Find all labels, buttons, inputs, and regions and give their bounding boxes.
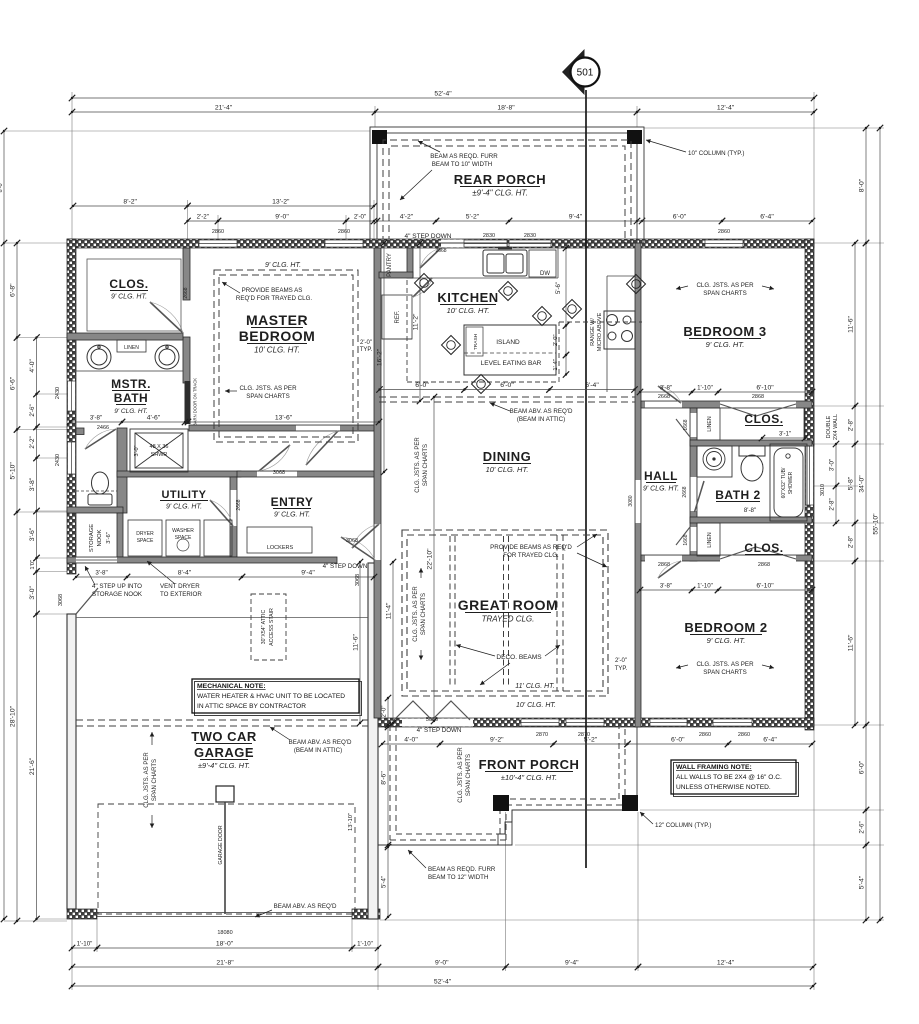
dim 6-6 left [10, 334, 21, 432]
svg-text:48 X 36: 48 X 36 [150, 444, 169, 450]
svg-text:TRASH: TRASH [473, 333, 479, 350]
svg-text:4'-2": 4'-2" [400, 214, 414, 221]
opening linen2 door [691, 527, 697, 551]
linen1 cabinet [697, 408, 720, 440]
svg-text:3'-8": 3'-8" [29, 477, 36, 491]
svg-text:6'-0": 6'-0" [673, 214, 687, 221]
door kitchen rear [420, 248, 441, 268]
ext line top x375 [374, 106, 376, 127]
ext line left y243 far [4, 242, 17, 244]
garage floor step line [76, 617, 368, 619]
closet shelf outline [87, 259, 181, 331]
svg-text:3'-8": 3'-8" [660, 583, 672, 590]
window 2830 kitchen a [464, 240, 507, 247]
svg-text:21'-6": 21'-6" [29, 757, 36, 775]
mechanical note box [192, 679, 362, 716]
svg-text:HALL: HALL [644, 469, 678, 483]
fridge box [382, 295, 412, 339]
svg-text:9' CLG. HT.: 9' CLG. HT. [166, 504, 202, 511]
arrow beam abv garage s [255, 910, 272, 917]
island bar dashed [464, 352, 556, 354]
arrow 10 column [646, 139, 686, 152]
svg-text:6'-6": 6'-6" [10, 376, 17, 390]
dim 11-6 right bed2 [848, 558, 859, 728]
svg-text:2'-2": 2'-2" [197, 214, 209, 221]
ext line bottom x505 [505, 812, 507, 971]
svg-text:CLG. JSTS. AS PER: CLG. JSTS. AS PER [415, 437, 421, 493]
arrow deco c [480, 663, 510, 685]
dim 6-0 bed2 s [624, 737, 731, 748]
svg-text:CLOS.: CLOS. [744, 541, 783, 555]
svg-text:4" STEP DOWN: 4" STEP DOWN [417, 727, 462, 734]
svg-text:2860: 2860 [738, 732, 750, 738]
sink master right [155, 345, 179, 369]
ext line bottom x378 [377, 848, 379, 990]
double 2x4 wall section [804, 408, 814, 446]
svg-text:22'-10": 22'-10" [427, 548, 434, 570]
svg-text:4'-0": 4'-0" [404, 737, 418, 744]
arrow provide great b [577, 553, 607, 567]
svg-text:2'-6": 2'-6" [29, 404, 36, 416]
svg-text:WATER HEATER & HVAC UNIT TO BE: WATER HEATER & HVAC UNIT TO BE LOCATED [197, 693, 345, 700]
wall pantry east [407, 248, 413, 278]
wall bed2 north [641, 555, 812, 561]
svg-text:9' CLG. HT.: 9' CLG. HT. [111, 294, 147, 301]
svg-text:MSTR.: MSTR. [111, 377, 151, 391]
svg-text:TYP.: TYP. [360, 347, 373, 353]
wall toilet east [117, 428, 127, 513]
dim 5-10 left [10, 426, 21, 515]
svg-text:52'-4": 52'-4" [434, 979, 452, 986]
wall toilet south [67, 507, 123, 513]
svg-text:2X4 WALL: 2X4 WALL [833, 414, 839, 440]
door toilet room [85, 429, 116, 449]
dim 9-0 top [215, 214, 349, 225]
wall clos1 south [690, 440, 812, 446]
wall master west lower [183, 337, 190, 383]
svg-text:4" STEP UP INTO: 4" STEP UP INTO [92, 583, 142, 590]
wall utility north [117, 471, 241, 477]
garage door opener box [216, 786, 234, 802]
door master closet [150, 302, 183, 333]
dim 4-0 porch [379, 737, 443, 748]
svg-text:BEAM AS REQD. FURR: BEAM AS REQD. FURR [428, 866, 496, 873]
svg-text:SPAN CHARTS: SPAN CHARTS [421, 593, 427, 635]
washer space box [166, 520, 200, 556]
dim 4-6 bath [119, 415, 188, 426]
room label bath2 [715, 488, 760, 502]
svg-text:SPAN CHARTS: SPAN CHARTS [246, 393, 289, 400]
svg-text:5'-8": 5'-8" [848, 476, 855, 490]
svg-text:2'-8": 2'-8" [848, 419, 855, 431]
dim 3-8 bed3 [637, 385, 695, 396]
svg-text:13'-2": 13'-2" [272, 199, 290, 206]
dim 9-4 bottom [502, 960, 641, 971]
dim 2-8 right b [848, 520, 859, 564]
dim 6-8 left [10, 240, 21, 341]
room label rear porch [454, 172, 546, 198]
room label great room [458, 597, 558, 624]
arrow provide master [222, 282, 240, 293]
svg-text:3'-6": 3'-6" [29, 527, 36, 541]
window 2870 great b [566, 719, 604, 726]
front door swing triangles [394, 701, 470, 720]
svg-text:IN ATTIC SPACE BY CONTRACTOR: IN ATTIC SPACE BY CONTRACTOR [197, 703, 306, 710]
ext line x374 [373, 200, 375, 239]
svg-text:BEDROOM 2: BEDROOM 2 [684, 620, 767, 635]
step line storage nook [76, 559, 117, 561]
svg-text:2830: 2830 [524, 233, 536, 239]
master tray ceiling dashed outer [214, 270, 358, 442]
kitchen cabinet dashed range [559, 321, 642, 323]
wall closet south [67, 333, 183, 340]
svg-text:18'-0": 18'-0" [216, 941, 234, 948]
room label clos2 [744, 541, 783, 555]
svg-text:SHOWER: SHOWER [788, 471, 794, 494]
svg-text:3'-0": 3'-0" [29, 585, 36, 599]
exterior wall left upper [67, 239, 76, 574]
arrow clg garage dn [150, 815, 155, 828]
svg-text:±9'-4" CLG. HT.: ±9'-4" CLG. HT. [198, 761, 250, 770]
svg-text:2868: 2868 [758, 562, 770, 568]
window 2860 bed2 b [713, 719, 752, 726]
section cut line [585, 90, 587, 868]
opening bed2 door [645, 556, 682, 562]
dim 3-0 right tub [829, 441, 840, 489]
opening linen1 door [691, 413, 697, 437]
svg-text:9' CLG. HT.: 9' CLG. HT. [643, 486, 679, 493]
dim 2-0 walkway [382, 695, 392, 728]
far left dim line [3, 131, 5, 919]
rear porch column right [627, 130, 642, 144]
dishwasher box [529, 250, 556, 277]
svg-text:SPAN CHARTS: SPAN CHARTS [466, 754, 472, 796]
great room tray dashed [402, 530, 608, 696]
svg-text:2830: 2830 [483, 233, 495, 239]
svg-text:3080: 3080 [628, 495, 634, 506]
dim 12-4 bottom [635, 960, 816, 971]
ceiling symbol 4 [563, 300, 582, 319]
opening bed3 door [645, 402, 682, 408]
wall bath2 south [690, 517, 812, 523]
room label garage 1 [191, 729, 257, 744]
svg-text:12'-4": 12'-4" [717, 105, 735, 112]
toilet room grab bar dashed [76, 490, 117, 492]
ceiling symbol 3 [533, 307, 552, 326]
room label kitchen [437, 290, 498, 315]
svg-text:1'-10": 1'-10" [697, 583, 713, 590]
svg-text:MECHANICAL NOTE:: MECHANICAL NOTE: [197, 683, 266, 690]
dim 5-2 porch [433, 214, 512, 225]
arrow step up nook [85, 566, 95, 585]
ext line right y444 [814, 443, 884, 445]
bath2 vanity [697, 446, 732, 477]
svg-text:2860: 2860 [699, 732, 711, 738]
svg-text:LINEN: LINEN [707, 416, 713, 432]
dim 11-4 walkway [386, 559, 397, 726]
ext line x187 [187, 200, 189, 239]
room label bedroom3 [683, 324, 766, 349]
dim 34-0 right [859, 240, 870, 728]
svg-text:TO EXTERIOR: TO EXTERIOR [160, 591, 202, 598]
ext line left y921 far [4, 920, 17, 922]
dim 5-4 right [859, 842, 870, 923]
dim 21-6 left [29, 611, 40, 922]
ext line bottom x352 [351, 919, 353, 952]
dim 52-4 bottom [69, 979, 816, 990]
exterior wall garage south right [352, 909, 380, 919]
dim 6-10 bed2 [715, 583, 815, 594]
svg-text:52'-4": 52'-4" [434, 91, 452, 98]
svg-text:8'-6": 8'-6" [381, 771, 388, 785]
dim 9-2 porch [437, 737, 557, 748]
ext line bottom x97 [96, 919, 98, 952]
svg-text:1'-10": 1'-10" [357, 941, 373, 948]
porch column se [622, 795, 638, 811]
ext line left y429.5 [17, 429, 67, 431]
svg-text:1'-4": 1'-4" [553, 359, 559, 371]
svg-text:3'-8": 3'-8" [660, 385, 672, 392]
dim 55-10 right [873, 125, 884, 923]
wall master west upper [183, 248, 190, 300]
arrow clg master [225, 389, 237, 394]
dim 1-10 a [69, 941, 100, 952]
svg-text:BARN DOOR ON TRACK: BARN DOOR ON TRACK [193, 378, 198, 426]
linen2 cabinet [697, 523, 720, 556]
svg-text:9' CLG. HT.: 9' CLG. HT. [707, 636, 746, 645]
bath2 tub [770, 444, 807, 521]
wall toilet north stub [76, 428, 84, 435]
door bedroom3 [658, 386, 681, 403]
dim 21-4 top [69, 105, 378, 116]
porch steps sw [498, 810, 512, 845]
room label master bedroom 2 [239, 328, 316, 355]
svg-text:STORAGE: STORAGE [89, 524, 95, 552]
sink master left [87, 345, 111, 369]
svg-text:9' CLG. HT.: 9' CLG. HT. [114, 408, 148, 415]
svg-text:MICRO ABOVE: MICRO ABOVE [597, 312, 603, 351]
linen1 door leaf [676, 419, 690, 437]
ext line x346 [345, 215, 347, 239]
svg-text:9'-4": 9'-4" [301, 570, 315, 577]
wall nook east [117, 513, 123, 557]
dim 3-8 bed2 [637, 583, 695, 594]
master tray ceiling dashed inner [219, 275, 353, 437]
wall pantry south [379, 272, 413, 278]
svg-text:6'-8": 6'-8" [10, 283, 17, 297]
svg-text:1668: 1668 [683, 534, 689, 545]
fridge counter line [382, 338, 412, 340]
dim 2-6 right [859, 807, 870, 848]
window 3010 bath2 [806, 446, 814, 505]
svg-text:TRAYED CLG.: TRAYED CLG. [482, 615, 535, 624]
window 2430 toilet rm [68, 442, 76, 474]
svg-text:LINEN: LINEN [124, 345, 139, 351]
svg-text:8'-0": 8'-0" [859, 178, 866, 192]
svg-text:CLG. JSTS. AS PER: CLG. JSTS. AS PER [696, 282, 754, 289]
window 2860 bedroom3 [705, 240, 743, 247]
window 2430 bath [68, 381, 76, 411]
svg-text:2'-0": 2'-0" [354, 214, 366, 221]
svg-text:TYP.: TYP. [615, 666, 628, 672]
opening dining entry door [375, 524, 381, 560]
arrow beam rear b [400, 170, 432, 200]
dim 52-4 top [69, 91, 817, 102]
dim 6-0 bed3 top [634, 214, 725, 225]
svg-text:(BEAM IN ATTIC): (BEAM IN ATTIC) [517, 416, 565, 423]
dim 1-10 b [349, 941, 381, 952]
svg-text:3'-6": 3'-6" [106, 532, 112, 544]
svg-text:12" COLUMN (TYP.): 12" COLUMN (TYP.) [655, 822, 711, 829]
ceiling symbol 2 [499, 282, 518, 301]
door dining-entry [352, 524, 379, 548]
svg-text:±9'-4" CLG. HT.: ±9'-4" CLG. HT. [472, 189, 528, 198]
dim 1-4 island [553, 352, 569, 378]
svg-text:SHWR: SHWR [151, 452, 168, 458]
svg-text:2'-0": 2'-0" [553, 334, 559, 346]
washer rings [177, 539, 189, 551]
svg-text:8'-4": 8'-4" [178, 570, 192, 577]
ext line left2 y919 [37, 918, 68, 920]
ext line left y512 [17, 511, 67, 513]
arrow clg bed3 a [676, 286, 688, 290]
svg-text:2'-0": 2'-0" [382, 706, 388, 718]
room label closet [109, 277, 148, 301]
door bedroom2 [658, 561, 681, 578]
svg-text:2668: 2668 [658, 394, 670, 400]
room label entry [271, 495, 314, 519]
front porch dashed beam [390, 725, 625, 840]
range [604, 311, 635, 349]
svg-text:4" STEP DOWN: 4" STEP DOWN [323, 563, 368, 570]
svg-text:REF.: REF. [395, 310, 401, 323]
svg-text:SPACE: SPACE [137, 538, 154, 544]
bath2 door leaf [695, 481, 705, 512]
svg-text:6'-10": 6'-10" [756, 385, 774, 392]
svg-text:CLOS.: CLOS. [744, 412, 783, 426]
svg-text:9'-0": 9'-0" [275, 214, 289, 221]
arrow clg great dn [419, 650, 424, 660]
kitchen cabinet dashed west [406, 280, 408, 382]
kitchen counter east [607, 276, 635, 392]
svg-text:SPAN CHARTS: SPAN CHARTS [423, 444, 429, 486]
opening utility door [231, 490, 237, 526]
garage side door leaf [76, 588, 98, 614]
svg-text:TWO CAR: TWO CAR [191, 729, 257, 744]
svg-text:5'-4": 5'-4" [859, 875, 866, 889]
svg-text:STORAGE NOOK: STORAGE NOOK [92, 591, 143, 598]
rear porch outline [370, 127, 644, 243]
door master [306, 431, 338, 465]
dim 13-2 [184, 199, 377, 210]
svg-text:11'-4": 11'-4" [386, 602, 393, 619]
ext line top-right x814 [813, 92, 815, 239]
svg-text:ALL WALLS TO BE 2X4 @ 16" O.C.: ALL WALLS TO BE 2X4 @ 16" O.C. [676, 774, 782, 781]
dim 6-0 right [859, 722, 870, 813]
svg-text:REAR PORCH: REAR PORCH [454, 172, 546, 187]
door corridor-entry [259, 445, 290, 471]
ext line left2 y614 [37, 613, 68, 615]
dim 5-6 kitchen [556, 245, 569, 329]
dim 1-0 left [30, 555, 40, 575]
svg-text:3'-0": 3'-0" [134, 445, 140, 456]
svg-text:2868: 2868 [752, 394, 764, 400]
lockers box [247, 527, 312, 553]
ext line bottom x814 [813, 730, 815, 990]
svg-text:2870: 2870 [536, 732, 548, 738]
ext line bottom x72 [71, 919, 73, 990]
svg-text:11'-2": 11'-2" [413, 313, 420, 330]
svg-text:PANTRY: PANTRY [387, 253, 393, 277]
svg-text:SPACE: SPACE [175, 535, 192, 541]
svg-text:11'-6": 11'-6" [353, 634, 360, 651]
dim 11-6 garage [353, 559, 364, 726]
svg-text:16'-2": 16'-2" [377, 348, 384, 366]
wall entry utility south [67, 557, 337, 563]
closet2 bifold doors [720, 547, 796, 559]
ext line left2 y571.5 [37, 571, 68, 573]
ext line top-left x72 [71, 92, 73, 239]
linen box master [117, 340, 146, 352]
svg-text:18'-8": 18'-8" [497, 105, 515, 112]
svg-text:FRONT PORCH: FRONT PORCH [479, 757, 580, 772]
dim 3-0 left [29, 568, 40, 617]
ext line left y921 [17, 920, 67, 922]
dim 3-8 bath [67, 415, 125, 426]
dim 6-10 bed3 [715, 385, 815, 396]
svg-text:2860: 2860 [212, 229, 224, 235]
section marker 501 [562, 49, 600, 95]
dim 4-2 porch [374, 214, 439, 225]
svg-text:11'-6": 11'-6" [848, 316, 855, 333]
ext line right y920 [380, 919, 884, 921]
dim 9-4 porch [506, 214, 645, 225]
svg-text:SPAN CHARTS: SPAN CHARTS [152, 759, 158, 801]
dryer space box [128, 520, 162, 556]
ext line right y561 [814, 560, 884, 562]
dim 22-10 great [427, 394, 438, 724]
svg-text:5'-6": 5'-6" [556, 282, 562, 294]
svg-text:BEDROOM: BEDROOM [239, 328, 316, 344]
svg-text:1'-10": 1'-10" [77, 941, 93, 948]
arrow 12 column [640, 812, 653, 824]
dim 2-8 right a [848, 403, 859, 447]
svg-text:2860: 2860 [338, 229, 350, 235]
svg-text:1'-10": 1'-10" [697, 385, 713, 392]
toilet master [88, 472, 112, 505]
ext line left y243 [17, 242, 67, 244]
beam dashed dining [379, 397, 635, 402]
svg-text:1'0": 1'0" [30, 560, 36, 570]
svg-text:2668: 2668 [236, 499, 242, 510]
svg-text:10' CLG. HT.: 10' CLG. HT. [516, 702, 556, 709]
kitchen cabinet dashed south [407, 381, 559, 383]
linen2 door leaf [676, 527, 690, 545]
svg-text:3'-8": 3'-8" [90, 415, 102, 422]
svg-text:DOUBLE: DOUBLE [826, 415, 832, 438]
ext line left2 y394 [37, 393, 68, 395]
ext line left2 y511 [37, 510, 68, 512]
svg-text:12'-4": 12'-4" [717, 960, 735, 967]
dim 28-10 left [10, 509, 21, 924]
room label dining [483, 449, 532, 474]
opening clos1 doors [720, 402, 796, 408]
svg-text:PROVIDE BEAMS AS REQ'D: PROVIDE BEAMS AS REQ'D [490, 544, 572, 551]
wall great room west / master east [374, 248, 381, 718]
svg-text:2'-8": 2'-8" [848, 536, 855, 548]
svg-text:2668: 2668 [183, 287, 189, 298]
svg-text:2'-0": 2'-0" [360, 340, 372, 346]
